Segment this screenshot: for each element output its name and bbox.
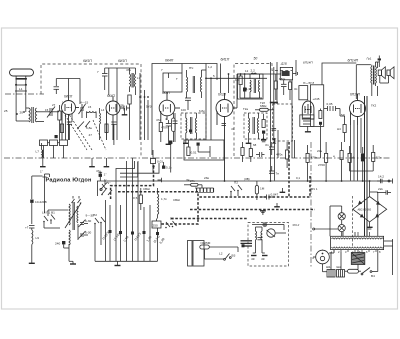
svg-text:14,2: 14,2 — [378, 175, 384, 179]
capacitor black right — [361, 147, 365, 171]
capacitor C12 black — [243, 88, 247, 92]
tube V1 grid cap wire — [56, 79, 80, 105]
cap 7n left — [269, 166, 279, 176]
tube V4 6Х2П — [216, 93, 237, 181]
section chain line vertical — [310, 142, 312, 267]
det filter coils — [250, 74, 260, 98]
resistor 7,5k — [372, 145, 383, 171]
cap C black AVC — [99, 172, 107, 181]
capacitor C6 — [102, 68, 108, 90]
capacitor C9 — [173, 113, 178, 142]
svg-text:25: 25 — [4, 109, 8, 113]
extra V1 leads — [66, 114, 73, 141]
wire IF input column — [140, 73, 148, 140]
svg-text:2700: 2700 — [318, 163, 325, 167]
pickup connector strip — [195, 185, 214, 193]
chassis chain line — [4, 157, 391, 159]
junction dots input — [16, 111, 25, 115]
capacitor C5 — [124, 106, 130, 111]
resistor mid 100k — [249, 143, 252, 162]
svg-text:27к: 27к — [190, 179, 195, 183]
svg-text:1,2: 1,2 — [208, 65, 212, 69]
resistor row right 47k — [306, 145, 318, 181]
resistor right of IF3 — [262, 114, 265, 139]
svg-text:Зп: Зп — [294, 87, 298, 91]
output terminal black — [378, 56, 381, 68]
svg-text:6П14П: 6П14П — [350, 93, 361, 97]
switch В2 bottom — [165, 217, 176, 229]
IF transformer 3 dashed box — [244, 113, 267, 139]
detector wire — [237, 73, 281, 75]
resistor R3 — [128, 95, 131, 140]
svg-text:П2: П2 — [93, 213, 97, 217]
volume pot 0,25M — [200, 241, 238, 249]
svg-text:СВШ: СВШ — [173, 198, 180, 202]
left mid caps resistors 470k — [276, 142, 289, 168]
svg-text:47н: 47н — [126, 68, 131, 72]
svg-text:1": 1" — [108, 181, 111, 185]
power transformer Тр — [331, 192, 384, 250]
detector diode dashed box — [273, 104, 293, 141]
shielded bus 5 vertical — [288, 142, 290, 197]
resistor mid 47к — [348, 146, 355, 171]
svg-text:6И1П: 6И1П — [83, 59, 92, 63]
trimmer cap 6-30 lower — [79, 231, 92, 239]
svg-text:4—15: 4—15 — [80, 101, 89, 105]
loudspeaker Гр2 — [387, 67, 394, 79]
cap mid small — [256, 152, 265, 157]
dial cord dashed diagonals — [65, 115, 106, 150]
svg-text:27: 27 — [52, 103, 56, 107]
phono terminal cap — [242, 244, 245, 247]
svg-text:ЯЧ 2: ЯЧ 2 — [292, 223, 300, 227]
phono wire top — [252, 225, 286, 234]
RF section dashed boundary — [41, 64, 141, 157]
phono coil — [256, 227, 263, 253]
svg-text:Гр1: Гр1 — [367, 57, 372, 61]
ground right of V2 — [122, 108, 128, 115]
svg-text:68: 68 — [253, 143, 257, 147]
ground bottom bus — [115, 261, 121, 265]
capacitor 0,01 square — [151, 150, 164, 173]
pickup head box — [188, 241, 205, 267]
lamp wires — [313, 206, 342, 236]
svg-text:7н: 7н — [276, 172, 280, 176]
resistor row drop wires — [44, 146, 64, 159]
switch П2 mid — [93, 213, 105, 226]
phono grounds — [251, 253, 268, 261]
capacitor C black 10-220 — [30, 200, 33, 225]
tube name labels row — [83, 57, 359, 64]
power section dashed boundary — [352, 196, 354, 247]
svg-text:(ЗВ): (ЗВ) — [244, 177, 250, 181]
switch В3 — [219, 252, 236, 261]
resistor 470k — [317, 142, 328, 181]
V5 ground lead — [305, 126, 311, 131]
external antenna terminal — [40, 170, 50, 181]
oscillator coil T3 lower — [69, 224, 78, 261]
ratio detector block — [280, 67, 296, 79]
capacitor C17 — [25, 226, 35, 231]
svg-text:49: 49 — [251, 257, 255, 261]
tube V1 6И1П — [62, 96, 80, 140]
capacitor C2 — [54, 87, 60, 94]
wire det inner — [240, 74, 262, 98]
cap black det — [261, 137, 266, 142]
fuse terminal 2A — [377, 175, 393, 184]
band chain line left — [5, 93, 44, 95]
misc labels bottom — [96, 169, 318, 202]
svg-text:20н: 20н — [317, 149, 322, 153]
svg-text:0,047: 0,047 — [271, 193, 279, 197]
svg-text:L2: L2 — [219, 252, 223, 256]
svg-text:6,8н: 6,8н — [86, 126, 92, 130]
tube V5 dome — [302, 101, 314, 119]
IF transformer 2 dashed box — [181, 113, 206, 139]
diode area caps left — [265, 142, 275, 155]
coil L7 — [36, 143, 43, 157]
wire bundle bottom left — [106, 158, 158, 261]
svg-text:680к: 680к — [260, 104, 267, 108]
detector section dashed boundary — [234, 64, 292, 157]
svg-text:В2: В2 — [170, 217, 174, 221]
band switch blade below C3 — [77, 121, 90, 129]
capacitor black mid — [169, 141, 172, 173]
ground IF2 box — [183, 139, 189, 143]
fuse Пр — [345, 269, 361, 273]
svg-text:47: 47 — [231, 127, 235, 131]
ground bottom left — [29, 252, 35, 263]
svg-text:L5: L5 — [88, 105, 92, 109]
svg-text:АВС-80-260: АВС-80-260 — [358, 209, 372, 212]
svg-text:6-30: 6-30 — [85, 231, 91, 235]
osc coil top contacts — [72, 196, 81, 203]
phono unit dashed box — [248, 223, 289, 267]
tube V3 screen box — [163, 73, 182, 92]
svg-text:Д2Б: Д2Б — [280, 61, 287, 65]
cap black near 0,01 — [162, 162, 172, 170]
svg-text:Радиола Югдон: Радиола Югдон — [46, 178, 92, 184]
svg-text:0,05: 0,05 — [327, 102, 333, 106]
wire antenna input down — [32, 176, 45, 213]
B+ bus wire — [97, 181, 391, 196]
dial lamp Л2 — [338, 225, 345, 232]
svg-text:L9: L9 — [36, 236, 40, 240]
tube V2 6К4П — [106, 96, 124, 140]
svg-text:2,2: 2,2 — [251, 69, 256, 73]
shield stub dot — [152, 165, 154, 167]
capacitor 0,047 — [262, 193, 279, 200]
resistor w cap 2000 — [333, 142, 343, 181]
svg-text:Н4: Н4 — [337, 127, 341, 131]
coil L6 — [247, 73, 257, 74]
svg-text:П2: П2 — [234, 181, 238, 185]
wire top box left — [105, 68, 136, 140]
trimmer top right of switch — [101, 180, 111, 190]
resistor R15 — [343, 116, 346, 142]
shield stub vertical — [111, 167, 154, 200]
IF top wire — [152, 64, 217, 156]
transformer pin stubs — [334, 232, 376, 252]
resistor R 51k — [133, 188, 142, 210]
trimmer cap 6-30 upper — [79, 219, 92, 227]
svg-text:6П14П: 6П14П — [303, 61, 313, 65]
oscillator coil T3 upper — [65, 202, 82, 230]
IF transformer 2 coils in box — [186, 113, 197, 139]
terminal circle small — [100, 188, 102, 190]
svg-text:Зп: Зп — [265, 143, 269, 147]
svg-text:6Х2П: 6Х2П — [218, 93, 227, 97]
svg-text:1,0: 1,0 — [235, 78, 240, 82]
svg-text:50: 50 — [254, 57, 258, 61]
svg-text:0,01: 0,01 — [157, 160, 163, 164]
svg-text:В3: В3 — [232, 254, 236, 258]
svg-text:ГК2: ГК2 — [371, 104, 376, 108]
loudspeaker Гр1 — [378, 67, 385, 79]
terminal 22k — [377, 187, 391, 195]
svg-text:49: 49 — [261, 257, 265, 261]
bridge ground — [367, 222, 373, 229]
svg-text:47: 47 — [89, 133, 93, 137]
misc value labels top — [45, 65, 345, 147]
power right rail — [384, 239, 393, 275]
motor capacitor block hatched — [351, 250, 365, 270]
ground mid coil — [69, 261, 76, 264]
svg-text:ПЧ: ПЧ — [189, 66, 193, 70]
coupling cap drop wire — [340, 109, 345, 117]
output transformer T2 — [371, 62, 380, 96]
svg-text:2Зв: 2Зв — [204, 176, 209, 180]
switch blades lower left mid — [101, 188, 112, 195]
motor wires — [313, 250, 334, 272]
wire switch to coil — [44, 210, 68, 228]
choke coil tall — [158, 188, 168, 219]
ground under V3 — [166, 142, 172, 144]
wire det drop lines — [271, 62, 278, 118]
svg-text:ДБ: ДБ — [120, 104, 124, 108]
svg-text:Ш1: Ш1 — [326, 265, 331, 269]
V5 shield tall box — [310, 85, 323, 127]
coil L9 — [32, 230, 39, 252]
oscillator coil L3 — [87, 112, 97, 119]
svg-text:≈0,25М: ≈0,25М — [200, 241, 211, 245]
variable capacitor C3 — [79, 104, 86, 118]
switch П2 upper — [230, 181, 242, 197]
svg-text:47н: 47н — [96, 169, 101, 173]
dial lamp Л1 — [338, 213, 345, 220]
resistor mid 68k — [241, 142, 244, 162]
svg-text:Т2а: Т2а — [243, 107, 248, 111]
resistor R14 — [319, 109, 322, 159]
svg-text:22к: 22к — [378, 187, 383, 191]
svg-text:СВШ: СВШ — [143, 187, 150, 191]
wire det column — [221, 64, 238, 109]
top coupling transformer T1 — [130, 68, 136, 95]
output terminal arrow — [296, 71, 298, 76]
svg-text:1,7к: 1,7к — [161, 197, 167, 201]
motor M — [312, 250, 329, 264]
svg-text:0,5: 0,5 — [133, 196, 138, 200]
tube labels above tubes — [64, 91, 361, 99]
test point T — [158, 178, 162, 182]
wire speaker leads — [380, 76, 389, 84]
bias bus right — [350, 171, 374, 181]
svg-text:100: 100 — [181, 108, 186, 112]
resistor R10 — [289, 80, 292, 100]
phono ground top — [260, 211, 266, 216]
diode bridge rectifier — [353, 197, 387, 222]
resistor R9 — [274, 74, 277, 100]
svg-text:П—5УЗ: П—5УЗ — [303, 81, 314, 85]
AVC wire A — [120, 163, 159, 173]
cap black under trimmer — [55, 135, 58, 138]
shielded bus 3 — [118, 192, 198, 224]
ferrite antenna WA1 — [10, 69, 34, 121]
cap black IF2 — [189, 130, 192, 133]
svg-text:н: н — [333, 154, 335, 158]
plug feed wires — [331, 252, 341, 270]
detector top bar — [270, 102, 278, 104]
wire driver columns — [271, 60, 297, 181]
svg-text:6К4П: 6К4П — [165, 59, 174, 63]
pot to switch wire — [205, 247, 239, 259]
electrolytic tall cap V3 — [172, 113, 176, 142]
resistor R8 — [235, 73, 242, 84]
V5 grid box — [299, 86, 308, 100]
AVC wire B — [120, 162, 138, 177]
svg-text:6К4П: 6К4П — [107, 94, 115, 98]
svg-text:+245: +245 — [313, 97, 320, 101]
bottom bus wire — [95, 226, 158, 261]
svg-text:L8 П1 В1: L8 П1 В1 — [42, 211, 55, 215]
ground below 0047 — [274, 203, 280, 207]
capacitor C13 — [281, 80, 287, 95]
svg-text:L4: L4 — [101, 108, 105, 112]
wire output stage top — [322, 62, 378, 99]
junction dots B+ line — [224, 180, 364, 182]
black caps row bottom left — [109, 230, 160, 235]
phono pickup circle — [262, 222, 275, 237]
cathode parts V1 — [60, 122, 72, 140]
svg-text:6П14П: 6П14П — [348, 59, 359, 63]
V5 cathode box — [300, 115, 314, 127]
svg-text:ЯЧ 1: ЯЧ 1 — [311, 187, 318, 191]
coil L4 — [100, 108, 101, 140]
detector input box — [228, 73, 263, 99]
capacitor C black 240 — [55, 241, 69, 248]
svg-text:6И1П: 6И1П — [221, 58, 230, 62]
ground near pickup — [280, 188, 286, 192]
svg-text:5,1к: 5,1к — [166, 166, 172, 170]
capacitor C8 — [166, 120, 171, 142]
trimmer capacitor C1 — [47, 107, 59, 118]
svg-text:7,5к: 7,5к — [376, 156, 382, 160]
svg-text:470к: 470к — [311, 156, 318, 160]
AVC box — [184, 140, 224, 160]
mains switch В4 — [361, 250, 378, 278]
svg-text:6,8и: 6,8и — [199, 109, 205, 113]
resistor row under V1 — [40, 140, 68, 146]
junction dots IF wires — [139, 96, 149, 98]
svg-text:1М: 1М — [260, 187, 265, 191]
svg-text:Ш2: Ш2 — [337, 265, 342, 269]
svg-text:1": 1" — [104, 173, 107, 177]
svg-text:6И1П: 6И1П — [118, 59, 127, 63]
screen bus wire — [206, 77, 267, 79]
svg-text:5УЗ: 5УЗ — [146, 105, 152, 109]
svg-text:Т: Т — [176, 77, 178, 81]
svg-text:250: 250 — [153, 224, 158, 228]
tube V3 6К4П — [159, 92, 180, 123]
svg-text:L7: L7 — [36, 150, 40, 154]
bridge top wire — [369, 180, 378, 196]
capacitor box 250 — [152, 219, 161, 229]
detector diode bowtie — [272, 103, 277, 144]
svg-text:240: 240 — [55, 242, 60, 246]
resistor 27k horizontal — [184, 179, 202, 186]
svg-text:20: 20 — [20, 111, 24, 115]
svg-text:+Г: +Г — [25, 226, 29, 230]
svg-text:10-220В: 10-220В — [35, 200, 47, 204]
svg-text:470к: 470к — [276, 153, 283, 157]
tube V6 6П14П output — [350, 94, 366, 125]
svg-text:1": 1" — [40, 170, 43, 174]
svg-text:-б: -б — [352, 156, 355, 160]
resistor R1 — [58, 105, 61, 140]
input transformer L2 — [16, 107, 50, 123]
shielded bus 1 — [198, 176, 310, 197]
slanted wire labels — [102, 231, 166, 245]
wire transformer down pair — [365, 96, 368, 236]
resistor oval 680k — [255, 104, 274, 111]
transformer pin numbers — [331, 250, 381, 254]
svg-text:Зв: Зв — [186, 178, 190, 182]
resistor 1M vertical — [255, 181, 264, 200]
mains plug Ш — [326, 265, 345, 277]
capacitor C10 — [185, 98, 191, 110]
phono cap — [258, 238, 263, 240]
phono terminal bars — [241, 241, 253, 246]
svg-text:В4: В4 — [371, 274, 375, 278]
coupling caps 0.05 — [324, 106, 340, 111]
AVC wire C — [116, 161, 135, 203]
resistor R5 — [159, 123, 162, 143]
grounds under tubes — [40, 150, 109, 167]
svg-text:0,51: 0,51 — [191, 151, 197, 155]
wire output columns — [351, 118, 362, 181]
cap under V4 — [222, 124, 227, 126]
shielded bus 2 — [190, 209, 315, 211]
svg-text:0,1: 0,1 — [296, 176, 300, 180]
ground IF3 box — [246, 139, 252, 143]
IF transformer 3 coils in box — [249, 113, 259, 139]
IF transformer 1 coils — [182, 64, 202, 99]
cathode parts V2 — [105, 122, 117, 145]
svg-text:L1: L1 — [19, 87, 23, 91]
band switch П1 — [42, 211, 55, 225]
wire IF out — [202, 64, 212, 141]
svg-text:6-30: 6-30 — [85, 219, 91, 223]
shielded bus 4 — [171, 218, 248, 220]
svg-text:12: 12 — [245, 69, 249, 73]
